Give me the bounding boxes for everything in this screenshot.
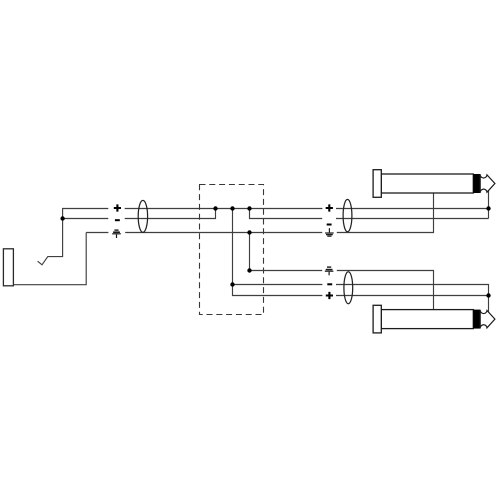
label - (upper right cable) (327, 224, 332, 226)
node A junction dot (213, 206, 217, 210)
wire R2 ground from node D corner to plug P3 sleeve (250, 233, 434, 310)
label + (left cable, tip) (114, 204, 121, 211)
plug P2 tip point (crown) (480, 174, 495, 193)
wire R1- from node C down and right to plug P2 tip lead (250, 209, 489, 219)
ground symbol (lower right cable, stem down) (325, 266, 334, 275)
label + (upper right cable, tip) (326, 204, 333, 211)
node E junction dot (ground corner to lower cable) (247, 268, 251, 272)
node D junction dot (ground tee) (247, 230, 251, 234)
cable jacket ellipse (upper right cable) (343, 199, 352, 231)
node B junction dot (230, 206, 234, 210)
junction box (dashed) (200, 185, 264, 315)
plug P2 tip insulator (black) (473, 174, 480, 193)
ground symbol (upper right cable, stem up) (325, 228, 334, 237)
plug P3 tip insulator (black) (473, 310, 480, 329)
node G junction dot (plug P1 tip lead tee) (60, 216, 64, 220)
wire junction-box vertical from node B down to bottom + (node F corner) (233, 209, 323, 296)
ground symbol (left cable, stem down) (112, 229, 121, 238)
wire R2+ from label gap to tip lead of plug P3 (336, 295, 489, 297)
wire L+ from label gap to tip-junction of plug P2 (125, 208, 489, 210)
node I junction dot (plug P3 tip) (486, 293, 490, 297)
label + (lower right cable, tip) (326, 292, 333, 299)
cable jacket ellipse (left cable) (138, 200, 147, 232)
wire L- from plug P1 to junction box (turns up to node A) (63, 209, 216, 219)
plug P2 tip lead vertical (488, 191, 490, 219)
plug P3 body (lower right 1/4 inch jack) (381, 310, 473, 329)
wire shield/ground from plug P1 sleeve across to plug P2 sleeve (86, 193, 433, 233)
node H junction dot (plug P2 tip) (486, 206, 490, 210)
label - (lower right cable) (327, 283, 332, 285)
plug P2 rear cap (373, 170, 381, 198)
plug P1 sleeve lead (13, 233, 86, 285)
plug P3 tip point (crown) (480, 310, 495, 329)
node F junction dot (lower minus tee) (230, 282, 234, 286)
plug P3 rear cap (373, 305, 381, 333)
node C junction dot (247, 206, 251, 210)
label - (left cable) (115, 219, 120, 221)
plug P1 body (left jack plug rear) (3, 249, 13, 286)
wire R2- from node F tee to plug P3 tip lead (233, 285, 489, 313)
plug P1 tip lead (wire L+ with corner and tip contact drop) (38, 209, 109, 265)
plug P2 body (upper right 1/4 inch jack) (381, 174, 473, 193)
cable jacket ellipse (lower right cable) (344, 272, 353, 304)
